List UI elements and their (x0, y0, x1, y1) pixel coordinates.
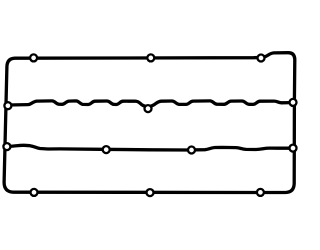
bolt hole right edge upper (290, 99, 297, 106)
bolt hole top left (30, 54, 37, 61)
bolt hole left edge upper (4, 102, 11, 109)
gasket outer perimeter (4, 53, 295, 193)
bolt hole bottom middle (147, 189, 154, 196)
bolt hole bottom left (31, 189, 38, 196)
inner rail upper (wavy line 2) (8, 101, 291, 107)
bolt hole hanging from upper rail (145, 105, 152, 112)
inner rail lower (wavy line 3) (7, 145, 291, 150)
bolt hole bottom right (257, 189, 264, 196)
bolt hole top right (258, 55, 265, 62)
bolt hole on lower rail left (103, 146, 110, 153)
bolt hole left edge lower (3, 143, 10, 150)
bolt hole on lower rail right (188, 147, 195, 154)
bolt hole right edge lower (290, 145, 297, 152)
bolt hole top middle (147, 54, 154, 61)
